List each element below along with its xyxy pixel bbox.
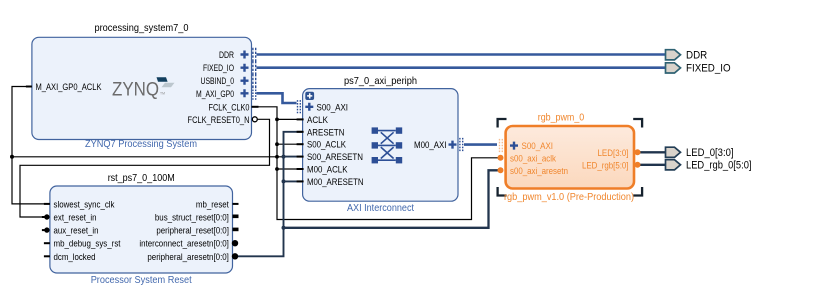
svg-text:ps7_0_axi_periph: ps7_0_axi_periph bbox=[344, 76, 417, 87]
svg-text:ext_reset_in: ext_reset_in bbox=[54, 213, 97, 223]
svg-text:aux_reset_in: aux_reset_in bbox=[54, 226, 99, 236]
pin mb_debug_sys_rst bbox=[44, 239, 121, 249]
svg-text:TM: TM bbox=[160, 92, 165, 96]
svg-text:peripheral_reset[0:0]: peripheral_reset[0:0] bbox=[156, 226, 229, 236]
svg-text:peripheral_aresetn[0:0]: peripheral_aresetn[0:0] bbox=[147, 252, 229, 262]
node junction clk-left bbox=[10, 155, 14, 159]
wire FIXED_IO bus bbox=[257, 66, 666, 69]
pin M_AXI_GP0 bbox=[196, 87, 256, 100]
svg-text:AXI Interconnect: AXI Interconnect bbox=[347, 203, 414, 214]
pin ARESETN bbox=[297, 127, 345, 137]
pin s00_axi_aclk bbox=[498, 153, 557, 163]
wire M00_AXI to rgb S00_AXI bbox=[464, 143, 497, 146]
port DDR bbox=[666, 50, 708, 62]
pin FCLK_CLK0 bbox=[209, 102, 259, 112]
svg-text:M00_AXI: M00_AXI bbox=[414, 140, 447, 150]
pin M00_ACLK bbox=[297, 165, 349, 175]
svg-text:rgb_pwm_0: rgb_pwm_0 bbox=[538, 113, 585, 124]
pin DDR bbox=[219, 48, 256, 61]
node junction S00_ARESETN bbox=[282, 155, 286, 159]
svg-text:USBIND_0: USBIND_0 bbox=[201, 76, 235, 86]
svg-text:M00_ACLK: M00_ACLK bbox=[307, 165, 348, 175]
pin FCLK_RESET0_N bbox=[188, 115, 258, 125]
svg-text:rst_ps7_0_100M: rst_ps7_0_100M bbox=[108, 173, 175, 184]
svg-text:ARESETN: ARESETN bbox=[307, 127, 345, 137]
svg-text:M_AXI_GP0: M_AXI_GP0 bbox=[196, 89, 234, 99]
svg-text:S00_ARESETN: S00_ARESETN bbox=[307, 152, 363, 162]
svg-text:ZYNQ7 Processing System: ZYNQ7 Processing System bbox=[85, 139, 197, 150]
pin ACLK bbox=[297, 115, 329, 125]
block processing_system7_0 bbox=[32, 23, 252, 150]
pin peripheral_reset bbox=[156, 226, 238, 236]
wire ACLK branch bbox=[277, 118, 303, 120]
pin S00_AXI (rgb) bbox=[500, 139, 554, 152]
svg-text:Processor System Reset: Processor System Reset bbox=[91, 275, 192, 286]
pin M00_AXI bbox=[414, 138, 463, 151]
svg-text:s00_axi_aclk: s00_axi_aclk bbox=[510, 153, 556, 163]
pin S00_ARESETN bbox=[297, 152, 363, 162]
svg-text:M00_ARESETN: M00_ARESETN bbox=[307, 177, 364, 187]
svg-text:interconnect_aresetn[0:0]: interconnect_aresetn[0:0] bbox=[139, 239, 229, 249]
wire M00_ACLK branch bbox=[277, 168, 303, 170]
selection corners rgb_pwm_0 bbox=[498, 119, 642, 196]
svg-text:rgb_pwm_v1.0 (Pre-Production): rgb_pwm_v1.0 (Pre-Production) bbox=[504, 192, 634, 203]
svg-text:S00_AXI: S00_AXI bbox=[317, 102, 349, 112]
pin aux_reset_in bbox=[42, 226, 99, 236]
svg-text:mb_reset: mb_reset bbox=[196, 199, 229, 209]
wire M_AXI_GP0_ACLK / clk net left vertical bbox=[12, 87, 50, 204]
wire aresetn to rgb_pwm bbox=[284, 170, 499, 228]
port FIXED_IO bbox=[666, 63, 731, 75]
svg-text:ACLK: ACLK bbox=[307, 115, 329, 125]
node junction ACLK bbox=[275, 118, 279, 122]
expand box bbox=[305, 92, 314, 100]
pin peripheral_aresetn bbox=[147, 252, 238, 262]
wire FCLK_CLK0 trunk bbox=[257, 107, 498, 220]
svg-text:bus_struct_reset[0:0]: bus_struct_reset[0:0] bbox=[155, 213, 229, 223]
pin ext_reset_in bbox=[42, 213, 97, 223]
svg-text:ZYNQ: ZYNQ bbox=[112, 79, 159, 100]
pin M00_ARESETN bbox=[297, 177, 364, 187]
svg-text:FCLK_CLK0: FCLK_CLK0 bbox=[209, 102, 250, 112]
svg-text:dcm_locked: dcm_locked bbox=[54, 252, 96, 262]
wire LED to port bbox=[640, 151, 666, 153]
node junction S00_ACLK bbox=[275, 142, 279, 146]
block rst_ps7_0_100M bbox=[50, 173, 233, 286]
svg-text:slowest_sync_clk: slowest_sync_clk bbox=[54, 199, 115, 209]
wire S00_ACLK branch bbox=[277, 143, 303, 145]
svg-text:s00_axi_aresetn: s00_axi_aresetn bbox=[510, 166, 568, 176]
pin LED_rgb[5:0] bbox=[582, 160, 641, 170]
wire FCLK_RESET0_N net bbox=[20, 119, 270, 217]
wire FCLK_CLK0 left branch bbox=[12, 156, 303, 158]
wire M_AXI_GP0 to S00_AXI bbox=[257, 93, 297, 103]
wire LED_rgb to port bbox=[640, 164, 666, 166]
pin FIXED_IO bbox=[203, 61, 256, 74]
svg-text:LED[3:0]: LED[3:0] bbox=[598, 148, 629, 158]
pin mb_reset bbox=[196, 199, 239, 209]
node junction aresetn-rgb bbox=[282, 226, 286, 230]
svg-text:FCLK_RESET0_N: FCLK_RESET0_N bbox=[188, 115, 250, 125]
pin bus_struct_reset bbox=[155, 213, 239, 223]
svg-text:FIXED_IO: FIXED_IO bbox=[203, 63, 234, 73]
pin S00_ACLK bbox=[297, 140, 347, 150]
block rgb_pwm_0 bbox=[504, 113, 634, 204]
pin USBIND_0 bbox=[201, 74, 256, 87]
wire S00_ARESETN branch bbox=[284, 156, 303, 158]
svg-text:DDR: DDR bbox=[686, 50, 707, 62]
block ps7_0_axi_periph bbox=[303, 76, 458, 214]
pin LED[3:0] bbox=[598, 148, 641, 158]
port LED_0 bbox=[666, 147, 734, 159]
svg-text:LED_0[3:0]: LED_0[3:0] bbox=[686, 147, 734, 159]
svg-text:mb_debug_sys_rst: mb_debug_sys_rst bbox=[54, 239, 121, 249]
pin S00_AXI (interconnect) bbox=[298, 100, 349, 113]
ZYNQ logo bbox=[112, 77, 175, 100]
svg-text:LED_rgb[5:0]: LED_rgb[5:0] bbox=[582, 160, 629, 170]
pin s00_axi_aresetn bbox=[498, 166, 569, 176]
svg-text:LED_rgb_0[5:0]: LED_rgb_0[5:0] bbox=[686, 160, 752, 172]
port LED_rgb_0 bbox=[666, 160, 752, 172]
svg-text:S00_ACLK: S00_ACLK bbox=[307, 140, 347, 150]
icon axi crossbar bbox=[372, 127, 403, 163]
node junction M00_ACLK bbox=[275, 167, 279, 171]
pin dcm_locked bbox=[44, 252, 96, 262]
wire DDR bus bbox=[257, 53, 666, 56]
svg-text:S00_AXI: S00_AXI bbox=[522, 141, 554, 151]
wire M00_ARESETN branch bbox=[284, 180, 303, 182]
svg-text:M_AXI_GP0_ACLK: M_AXI_GP0_ACLK bbox=[36, 82, 103, 92]
pin M_AXI_GP0_ACLK bbox=[26, 82, 102, 92]
svg-text:FIXED_IO: FIXED_IO bbox=[686, 63, 731, 75]
svg-text:processing_system7_0: processing_system7_0 bbox=[95, 23, 189, 34]
wire peripheral_aresetn net trunk bbox=[235, 132, 303, 256]
pin slowest_sync_clk bbox=[44, 199, 115, 209]
node junction M00_ARESETN bbox=[282, 179, 286, 183]
pin interconnect_aresetn bbox=[139, 239, 238, 249]
svg-text:DDR: DDR bbox=[219, 50, 234, 60]
node junction clk-mid bbox=[275, 155, 279, 159]
